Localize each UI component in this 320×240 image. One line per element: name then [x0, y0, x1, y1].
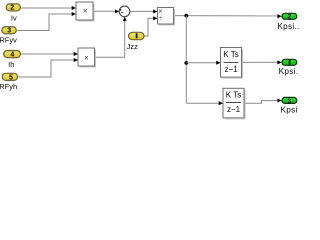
svg-text:×: × — [83, 6, 88, 15]
divide block U1 — [158, 8, 175, 26]
wire Ih to Product2 — [21, 52, 78, 56]
inport 2 Iv — [6, 4, 20, 23]
svg-text:z−1: z−1 — [224, 65, 238, 74]
svg-text:Iv: Iv — [11, 13, 17, 22]
wire RFyv to Product1 — [17, 12, 76, 31]
outport 3 Kpsi — [281, 97, 298, 114]
svg-text:2: 2 — [10, 5, 14, 12]
inport 3 RFyv — [0, 27, 17, 45]
svg-text:4: 4 — [10, 51, 14, 58]
inport 1 Jzz — [127, 32, 144, 51]
wire RFyh to Product2 — [18, 58, 78, 77]
junction node at divide output — [184, 14, 188, 18]
discrete integrator block K Ts/(z-1) #1 — [221, 48, 243, 79]
svg-text:z−1: z−1 — [227, 105, 241, 114]
svg-text:×: × — [84, 54, 89, 63]
wire vertical branch down — [185, 16, 187, 104]
svg-text:K Ts: K Ts — [223, 50, 238, 59]
svg-text:RFyv: RFyv — [0, 35, 17, 44]
svg-text:Kpsi..: Kpsi.. — [277, 22, 299, 31]
wire Product2 to Sum (bottom input) — [95, 17, 127, 58]
wire Sum to Divide — [130, 9, 158, 13]
wire branch to K Ts 2 — [186, 101, 223, 105]
product block P1 — [76, 2, 94, 21]
wire branch to K Ts 1 — [186, 61, 220, 65]
wire Jzz to Divide — [144, 16, 158, 36]
wire Iv to Product1 — [21, 6, 76, 10]
wire K Ts 1 to Outport Kpsi. — [242, 60, 282, 64]
sum block — [119, 6, 130, 17]
svg-text:3: 3 — [287, 98, 291, 105]
svg-text:Ih: Ih — [8, 60, 14, 69]
svg-text:Kpsi.: Kpsi. — [279, 67, 299, 76]
outport 1 Kpsi. — [279, 59, 299, 76]
product block P2 — [78, 48, 96, 67]
inport 5 RFyh — [0, 73, 18, 91]
svg-text:5: 5 — [9, 74, 13, 81]
svg-text:RFyh: RFyh — [0, 82, 17, 91]
svg-text:÷: ÷ — [158, 15, 162, 22]
wire Product1 to Sum — [93, 9, 119, 13]
svg-text:2: 2 — [287, 14, 291, 21]
svg-text:3: 3 — [7, 28, 11, 35]
svg-text:Kpsi: Kpsi — [281, 105, 298, 114]
discrete integrator block K Ts/(z-1) #2 — [223, 88, 245, 119]
outport 2 Kpsi.. — [277, 13, 299, 31]
wire K Ts 2 to Outport Kpsi — [244, 98, 282, 103]
svg-text:Jzz: Jzz — [127, 42, 139, 51]
svg-text:K Ts: K Ts — [226, 90, 241, 99]
wire Divide output to Outport Kpsi.. — [174, 14, 282, 18]
inport 4 Ih — [4, 51, 21, 69]
junction node at K Ts 1 branch — [184, 61, 188, 65]
